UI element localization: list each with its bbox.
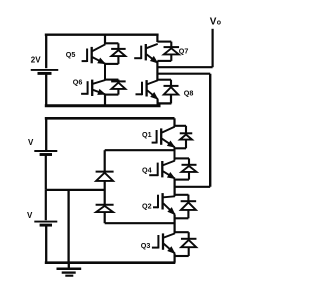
svg-text:o: o [217,19,221,26]
svg-text:V: V [28,138,34,147]
svg-text:2V: 2V [31,56,41,65]
svg-text:Q8: Q8 [184,89,194,98]
svg-text:Q4: Q4 [142,165,152,174]
svg-text:Q5: Q5 [66,50,76,59]
svg-text:Q2: Q2 [142,202,152,211]
svg-text:V: V [210,16,217,27]
svg-text:Q1: Q1 [142,130,152,139]
svg-text:Q3: Q3 [141,241,151,250]
svg-text:V: V [27,211,33,220]
svg-text:Q6: Q6 [73,78,83,87]
svg-text:Q7: Q7 [179,47,189,56]
